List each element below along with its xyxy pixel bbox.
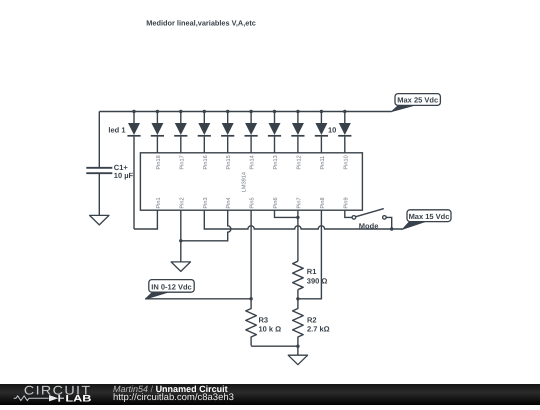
svg-text:Pin10: Pin10: [342, 155, 349, 169]
resistor R3 10 k Ohm: [246, 299, 281, 346]
pin label Pin6: [272, 197, 279, 208]
node dot R bottom: [296, 345, 299, 348]
node dots on top rail: [132, 110, 346, 113]
wire Pin7 down to R1: [297, 210, 299, 261]
wire Pin4 with hop to Pin2: [181, 210, 231, 241]
svg-text:Pin9: Pin9: [342, 197, 349, 208]
svg-text:LM3914: LM3914: [242, 172, 248, 192]
svg-text:Pin13: Pin13: [272, 155, 279, 169]
pin label Pin16: [202, 155, 209, 169]
node dot Pin6/Pin7: [296, 216, 299, 219]
CircuitLab logo: [0, 384, 100, 405]
node dot R3 top: [249, 297, 252, 300]
resistor R1 390 Ohm: [293, 261, 328, 290]
callout Max 25 Vdc: [392, 94, 441, 112]
LED D8: [291, 112, 304, 153]
wire Pin1 to LED D1: [134, 210, 157, 229]
wire IN to R3 node: [145, 298, 251, 300]
pin label Pin9: [342, 197, 349, 208]
svg-text:R3: R3: [259, 316, 269, 325]
node dot Pin2/Pin4: [179, 239, 182, 242]
callout IN 0-12 Vdc: [145, 280, 194, 300]
svg-text:R2: R2: [307, 316, 317, 325]
footer url line: [113, 393, 234, 403]
wire R3 bottom to R2 bottom: [251, 345, 298, 347]
pin label Pin12: [295, 155, 302, 169]
pin label Pin13: [272, 155, 279, 169]
pin label Pin18: [155, 155, 162, 169]
svg-text:390 Ω: 390 Ω: [307, 276, 328, 285]
label 10: [328, 126, 336, 135]
pin label Pin11: [319, 156, 326, 170]
capacitor C1 10 uF: [86, 163, 133, 180]
svg-text:Pin4: Pin4: [225, 197, 232, 208]
LED D10: [338, 112, 351, 153]
pin label Pin5: [249, 197, 256, 208]
LED D4: [198, 112, 211, 153]
wire R1 to node: [297, 290, 299, 299]
footer bar: [0, 384, 540, 405]
pin label Pin14: [249, 155, 256, 169]
svg-text:Max 15 Vdc: Max 15 Vdc: [409, 212, 450, 221]
LED D6: [245, 112, 258, 153]
wire top rail: [99, 111, 391, 113]
wire Pin8 down to node: [298, 210, 322, 299]
svg-text:10 k Ω: 10 k Ω: [259, 325, 282, 334]
svg-text:Mode: Mode: [359, 222, 379, 231]
resistor R2 2.7 kOhm: [293, 299, 330, 346]
pin label Pin2: [178, 197, 185, 208]
wire switch to net A: [386, 217, 392, 229]
svg-text:Pin1: Pin1: [155, 197, 162, 208]
svg-text:10: 10: [328, 126, 336, 135]
svg-text:Pin16: Pin16: [202, 155, 209, 169]
svg-text:10 µF: 10 µF: [114, 171, 134, 180]
switch SW1 Mode: [352, 209, 386, 231]
pin label Pin17: [178, 155, 185, 169]
svg-text:2.7 kΩ: 2.7 kΩ: [307, 325, 330, 334]
wire C1 to ground: [98, 174, 100, 215]
pin label Pin4: [225, 197, 232, 208]
ground bottom: [288, 355, 307, 365]
LED D3: [174, 112, 187, 153]
svg-text:Medidor lineal,variables V,A,e: Medidor lineal,variables V,A,etc: [146, 18, 256, 27]
pin label Pin7: [295, 197, 302, 208]
svg-text:Pin15: Pin15: [225, 155, 232, 169]
svg-text:Pin11: Pin11: [319, 156, 326, 170]
wire Pin6 jog to Pin7: [275, 210, 298, 217]
ground at Pin2: [171, 262, 190, 272]
ground under C1: [90, 215, 109, 225]
LED D7: [268, 112, 281, 153]
pin label Pin15: [225, 155, 232, 169]
wire node to bottom ground: [297, 346, 299, 355]
svg-text:Pin7: Pin7: [295, 197, 302, 208]
svg-text:LAB: LAB: [65, 393, 91, 404]
wire Pin9 to switch: [345, 210, 352, 217]
LED D2: [151, 112, 164, 153]
title text: [146, 18, 256, 27]
label led 1: [108, 125, 125, 134]
svg-text:IN 0-12 Vdc: IN 0-12 Vdc: [151, 283, 191, 292]
pin label Pin8: [319, 197, 326, 208]
svg-text:Pin3: Pin3: [202, 197, 209, 208]
wire Pin2 down: [180, 210, 182, 262]
svg-text:Pin18: Pin18: [155, 155, 162, 169]
wire Pin3 net A with hops: [204, 210, 402, 229]
LED D1: [127, 112, 140, 230]
svg-text:Pin14: Pin14: [249, 155, 256, 169]
svg-text:Pin2: Pin2: [178, 197, 185, 208]
IC U1 LM3914: [140, 153, 362, 210]
pin label Pin3: [202, 197, 209, 208]
node dot switch/net A: [390, 227, 393, 230]
svg-text:Pin8: Pin8: [319, 197, 326, 208]
svg-text:Pin12: Pin12: [295, 155, 302, 169]
pin label Pin1: [155, 197, 162, 208]
svg-text:Pin6: Pin6: [272, 197, 279, 208]
LED D9: [315, 112, 328, 153]
svg-text:Pin17: Pin17: [178, 155, 185, 169]
svg-text:Max 25 Vdc: Max 25 Vdc: [397, 96, 438, 105]
callout Max 15 Vdc: [403, 210, 451, 229]
wire Pin5 down to node: [250, 210, 252, 299]
wire left drop to C1: [98, 112, 100, 168]
LED D5: [221, 112, 234, 153]
svg-text:R1: R1: [307, 267, 317, 276]
pin label Pin10: [342, 155, 349, 169]
node dot R1/R2: [296, 297, 299, 300]
svg-text:led 1: led 1: [108, 125, 125, 134]
svg-text:Pin5: Pin5: [249, 197, 256, 208]
footer author line: [113, 384, 228, 394]
